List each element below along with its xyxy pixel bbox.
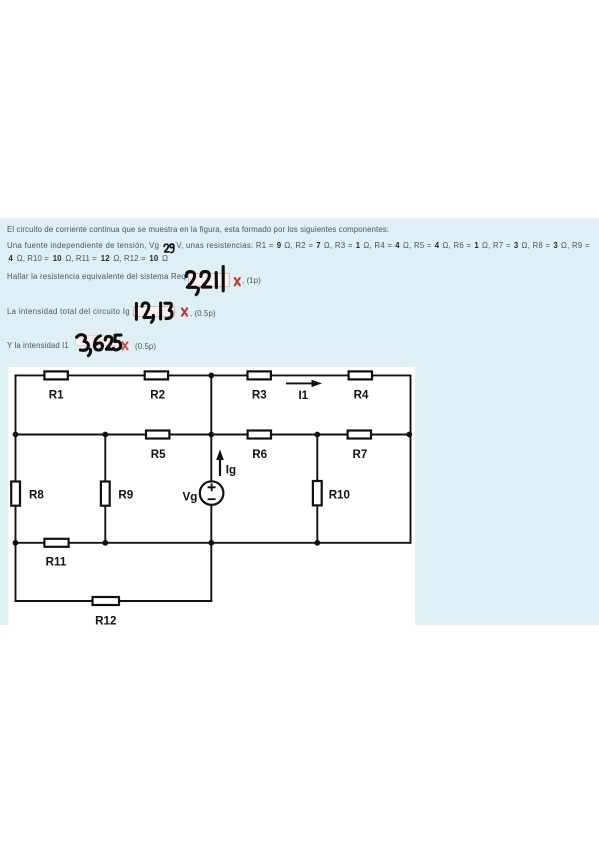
svg-text:R2: R2 xyxy=(150,388,165,401)
resistor R5 xyxy=(146,431,169,439)
wire center vertical lower (Vg bottom to bottom wire) xyxy=(210,505,212,601)
question 1 mark (1p) xyxy=(242,276,261,286)
node junction row2 center xyxy=(208,432,214,438)
label R1 xyxy=(49,388,64,401)
resistor R6 xyxy=(248,431,271,439)
resistor R11 xyxy=(44,539,68,547)
label R12 xyxy=(95,615,116,628)
handwritten value 29 in text line 2 xyxy=(164,244,174,252)
label Vg xyxy=(183,491,198,504)
answer box 3 xyxy=(75,335,120,346)
resistor R10 xyxy=(313,481,322,505)
circuit white canvas xyxy=(8,367,415,625)
wire left vertical xyxy=(15,375,17,601)
node junction top center xyxy=(208,373,214,379)
svg-text:R7: R7 xyxy=(352,448,367,461)
svg-text:Ig: Ig xyxy=(226,463,236,476)
resistor R1 xyxy=(44,371,67,379)
wire right vertical xyxy=(410,375,412,542)
voltage source Vg xyxy=(200,481,224,505)
svg-text:R6: R6 xyxy=(252,448,267,461)
handwritten answer 3,625 xyxy=(77,335,121,356)
blue question band xyxy=(0,218,599,625)
resistor R2 xyxy=(145,371,168,379)
red cross mark 3 (small) xyxy=(122,342,127,349)
label R4 xyxy=(354,388,369,401)
node junction row3 center xyxy=(208,540,214,546)
question 1 text xyxy=(7,272,186,282)
question 3 text xyxy=(7,341,69,351)
question 2 text xyxy=(7,307,130,317)
svg-text:R1: R1 xyxy=(49,388,64,401)
svg-text:R8: R8 xyxy=(29,488,44,501)
svg-text:R3: R3 xyxy=(252,388,267,401)
paragraph line 2 xyxy=(7,241,590,251)
label R8 xyxy=(29,488,44,501)
wire middle horizontal (row 2) xyxy=(16,434,411,436)
label Ig xyxy=(226,463,236,476)
svg-text:R4: R4 xyxy=(354,388,369,401)
label R10 xyxy=(329,488,350,501)
svg-text:R9: R9 xyxy=(118,488,133,501)
svg-text:I1: I1 xyxy=(298,389,308,402)
node junction row2 right xyxy=(406,432,412,438)
label R9 xyxy=(118,488,133,501)
svg-text:Vg: Vg xyxy=(183,491,198,504)
label R11 xyxy=(46,556,67,569)
resistor R3 xyxy=(248,371,271,379)
answer box 2 xyxy=(133,306,176,317)
label R7 xyxy=(352,448,367,461)
node junction row3 left xyxy=(13,540,19,546)
svg-text:R11: R11 xyxy=(46,556,67,569)
resistor R4 xyxy=(349,371,372,379)
resistor R12 xyxy=(93,597,120,605)
wire top horizontal xyxy=(16,374,411,376)
node junction row2 left xyxy=(13,432,19,438)
wire R9 branch vertical xyxy=(104,435,106,543)
current arrow I1 xyxy=(286,380,322,387)
label R5 xyxy=(151,448,166,461)
label R6 xyxy=(252,448,267,461)
svg-text:R12: R12 xyxy=(95,615,116,628)
wire row 3 horizontal (R11 row) xyxy=(16,542,411,544)
wire bottom horizontal (R12 row) xyxy=(16,600,212,602)
red cross mark 2 xyxy=(182,308,187,315)
question 3 mark (0.5p) xyxy=(135,342,156,352)
node junction row3 R10 bottom xyxy=(314,540,320,546)
handwritten answer 2,21| xyxy=(186,267,223,295)
wire center vertical upper (node to Vg top) xyxy=(210,375,212,481)
svg-text:R10: R10 xyxy=(329,488,350,501)
paragraph line 1 xyxy=(7,225,389,235)
resistor R9 xyxy=(101,482,110,506)
wire R10 branch vertical xyxy=(316,435,318,543)
question 2 mark (0.5p) xyxy=(190,309,216,319)
node junction row2 R9 top xyxy=(102,432,108,438)
label I1 xyxy=(298,389,308,402)
paragraph line 3 xyxy=(7,254,168,264)
label R2 xyxy=(150,388,165,401)
handwritten answer 12,13 xyxy=(136,303,172,323)
resistor R8 xyxy=(11,482,20,506)
current arrow Ig xyxy=(216,450,224,477)
red cross mark 1 xyxy=(235,278,240,285)
label R3 xyxy=(252,388,267,401)
svg-text:R5: R5 xyxy=(151,448,166,461)
answer box 1 xyxy=(188,273,230,287)
node junction row3 R9 bottom xyxy=(102,540,108,546)
resistor R7 xyxy=(348,431,371,439)
node junction row2 R10 top xyxy=(314,432,320,438)
